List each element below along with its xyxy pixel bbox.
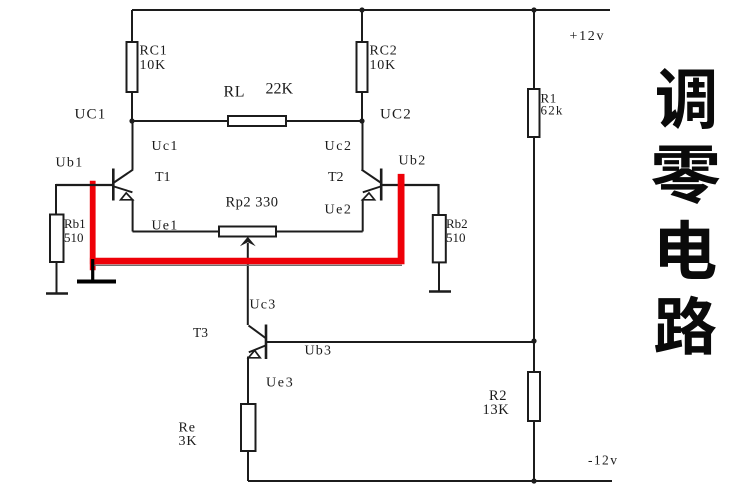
wire: top rail down to R1 [533,10,535,89]
title character 路 [655,296,716,355]
svg-text:Ub1: Ub1 [56,156,84,171]
resistor RC1 [127,42,138,92]
wire: T1 emitter to potentiometer [133,231,220,233]
svg-text:Ub3: Ub3 [305,344,333,359]
wire: top rail to RC1 [131,10,133,42]
resistor R1 [528,89,540,137]
title character 电 [660,220,716,279]
svg-text:Rp2 330: Rp2 330 [226,195,279,211]
transistor T1 [113,169,133,232]
resistor Rb2 [433,215,446,262]
svg-text:Uc3: Uc3 [250,298,277,313]
svg-text:Rb2: Rb2 [446,216,468,231]
svg-text:Rb1: Rb1 [64,216,86,231]
node UC2 junction dot [359,118,364,123]
svg-text:510: 510 [64,230,84,245]
svg-text:13K: 13K [483,402,510,418]
wire: R2 to -12V rail [533,421,535,481]
svg-text:510: 510 [446,230,466,245]
transistor T3 [248,325,266,405]
wire: +12V top rail [132,9,610,11]
svg-text:3K: 3K [179,434,198,449]
svg-text:Ub2: Ub2 [399,154,427,169]
wire: UC1 to UC2 through RL [132,120,362,122]
ground: center ground stub over red [91,259,94,283]
potentiometer wiper arrow [240,237,256,246]
svg-text:-12v: -12v [588,453,618,468]
wire: Ub1 node down to Rb1 [55,184,57,215]
resistor R2 [528,372,540,421]
svg-text:RL: RL [224,84,246,101]
svg-text:Uc2: Uc2 [325,139,353,154]
node: Ub3 wire junction [531,338,536,343]
wire: RC1 to node UC1 [131,92,133,121]
transistor T2 [362,169,382,232]
title character 调 [657,68,714,129]
resistor Re [241,404,256,451]
wire: Re to -12V rail [247,451,249,481]
ground: center ground bar [77,280,116,284]
wire: T1 base wire [56,184,113,186]
wire: top rail to RC2 [361,10,363,42]
transistor T1 emitter arrowhead [121,193,133,200]
resistor RL [228,116,286,126]
red wire: horizontal ground link highlight [90,258,405,264]
wire: thin ground link under red highlight [93,264,402,266]
wire: T2 base wire [382,184,439,186]
wire: wiper down to T3 collector [247,243,249,325]
wire: R1 down to Ub3 node [533,137,535,372]
svg-text:Uc1: Uc1 [152,139,179,154]
svg-text:UC1: UC1 [75,106,107,122]
svg-text:T1: T1 [155,170,171,185]
node: top rail / R1 branch junction [531,7,536,12]
svg-text:T2: T2 [328,170,344,185]
svg-text:RC2: RC2 [370,44,398,59]
svg-text:22K: 22K [266,81,294,98]
svg-text:Ue2: Ue2 [325,203,353,218]
svg-text:Ue3: Ue3 [266,376,294,391]
title character 零 [652,146,720,204]
svg-text:UC2: UC2 [380,106,412,122]
wire: potentiometer to T2 emitter [276,231,363,233]
wire: UC2 node down to T2 collector [362,121,364,170]
wire: RC2 to node UC2 [361,92,363,121]
wire: UC1 node down to T1 collector [132,121,134,170]
node: bottom rail junction [531,478,536,483]
resistor Rb1 [50,215,64,263]
wire: T3 base to R2 branch [267,341,535,343]
wire: Rb1 to ground [56,262,58,293]
node: top rail / RC2 branch junction [359,7,364,12]
svg-text:62k: 62k [541,103,564,118]
wire: -12V bottom rail [248,480,612,482]
red wire: T2 base to ground highlight [398,174,405,264]
red wire: T1 base to ground highlight (under black wires) [90,181,96,271]
transistor T3 emitter arrowhead [248,350,260,357]
potentiometer Rp2 [219,227,276,237]
wire: Rb2 to ground [438,262,440,291]
svg-text:10K: 10K [370,58,397,73]
svg-text:RC1: RC1 [140,44,168,59]
node UC1 junction dot [129,118,134,123]
transistor T2 emitter arrowhead [363,193,375,200]
ground: Rb2 ground bar [429,290,451,293]
svg-text:10K: 10K [140,58,167,73]
wire: Ub2 node down to Rb2 [437,184,439,215]
svg-text:+12v: +12v [570,29,606,44]
resistor RC2 [357,42,368,92]
svg-text:T3: T3 [193,325,208,340]
ground: Rb1 ground bar [46,292,68,295]
